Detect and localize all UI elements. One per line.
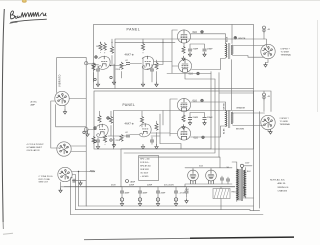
wire mid tail 2: [168, 148, 211, 150]
capacitor C4 25MF: [188, 49, 192, 51]
tie point 2: [110, 76, 112, 78]
circled-plus V6: [202, 136, 205, 139]
svg-text:BLUE: BLUE: [226, 36, 228, 42]
svg-text:& PHASE SHIFT: & PHASE SHIFT: [27, 146, 43, 149]
wire G2 lead: [113, 64, 115, 80]
ground G22: [63, 110, 66, 115]
wire R1b leads: [104, 42, 106, 53]
wire T3 top leads: [232, 162, 245, 170]
wire HV stub: [219, 157, 220, 168]
wire input bus vertical: [85, 58, 87, 206]
wire C22 leads: [227, 177, 229, 184]
wire G21 lead: [87, 130, 89, 132]
title Baldwin handwritten: [10, 11, 46, 19]
ground G16: [182, 125, 185, 130]
pentode V5: [177, 98, 190, 111]
svg-text:25MF: 25MF: [207, 49, 213, 51]
wire driver to output grids: [151, 99, 177, 136]
wire jack to tube: [88, 64, 99, 65]
svg-text:OIL 600V: OIL 600V: [140, 173, 149, 175]
svg-text:20MF: 20MF: [147, 185, 153, 187]
resistor R5: [141, 44, 144, 51]
wire R2 leads: [111, 39, 113, 66]
wire bottom loop 3: [71, 214, 264, 216]
scan artifact: bottom diagonal line: [84, 238, 190, 239]
svg-text:MFD AT 450: MFD AT 450: [140, 165, 150, 168]
capacitor C14: [203, 118, 207, 120]
wire C12 leads: [151, 137, 153, 144]
electrolytic C6: [262, 26, 266, 33]
wire C16 leads: [97, 138, 99, 145]
resistor R16 screen: [182, 115, 185, 122]
wire plate bus mid: [151, 111, 163, 144]
circled-plus V3: [197, 72, 200, 75]
ground G12: [141, 144, 144, 149]
wire V9 to V10: [51, 101, 58, 148]
rectifier top line: [185, 167, 232, 169]
ground G4: [155, 82, 158, 87]
wire R15 leads: [156, 121, 158, 144]
wire T2 secondary to socket: [233, 113, 265, 126]
svg-text:6L6: 6L6: [193, 30, 198, 34]
resistor R18 inline: [90, 171, 95, 172]
circled-plus V2: [201, 31, 204, 34]
svg-text:LAMP: LAMP: [130, 181, 136, 184]
wire T3 AC to bus: [237, 187, 254, 202]
tie point 3: [94, 140, 96, 142]
svg-text:2 SPKR ?: 2 SPKR ?: [280, 118, 290, 120]
ground G13: [155, 144, 158, 149]
ground G20: [264, 63, 267, 68]
wire mid tail 1: [160, 144, 181, 149]
bottom-left faint smudge: [3, 232, 13, 235]
wire choke leads: [220, 187, 222, 210]
transformer T2 secondary winding: [231, 112, 232, 124]
wire R5 leads: [142, 39, 144, 53]
wire screen taps: [184, 43, 205, 48]
wire R11 leads: [110, 111, 112, 136]
wire G3 lead: [142, 58, 144, 83]
wire C6 lead: [264, 33, 267, 47]
wire R6 leads: [156, 60, 158, 82]
ground G3: [141, 82, 144, 87]
svg-text:PANEL: PANEL: [123, 103, 136, 107]
svg-text:AMP: AMP: [31, 104, 36, 107]
svg-text:1M: 1M: [96, 46, 99, 48]
wire R17 leads: [104, 135, 106, 145]
resistor R1b: [103, 44, 106, 51]
paper top edge shading: [0, 0, 320, 1]
wire G22 lead: [64, 106, 66, 110]
triode V4a: [97, 124, 109, 137]
wire V11 w3: [71, 178, 73, 215]
pentode V3: [178, 59, 191, 72]
ground G17: [269, 130, 272, 135]
filter cap F5: [185, 187, 189, 204]
ground G21: [86, 132, 89, 137]
wire C21 leads: [221, 176, 223, 184]
wire V10 right 1: [71, 145, 86, 147]
wire V11 w1: [72, 172, 90, 207]
svg-text:20MF: 20MF: [161, 193, 167, 195]
svg-text:450V: 450V: [111, 185, 116, 187]
wire C15 leads: [263, 91, 265, 112]
wire B+ center tap upper: [231, 25, 233, 44]
circled-plus mid2: [107, 117, 110, 120]
wire bottom loop 2: [76, 210, 260, 211]
capacitor C3: [150, 69, 154, 71]
svg-text:TO GRID: TO GRID: [280, 121, 289, 123]
wire bus left end to ground: [61, 182, 65, 188]
wire screen taps mid: [184, 112, 205, 117]
ground G19: [79, 181, 82, 186]
svg-text:AND FIL: AND FIL: [278, 182, 287, 185]
pentode V2: [177, 30, 190, 43]
triode V1a: [99, 56, 111, 69]
fuse: [240, 164, 243, 167]
svg-text:CHASSIS: CHASSIS: [278, 190, 288, 193]
tube socket V10 phase shift osc: [57, 142, 71, 156]
svg-text:TO 6SN7: TO 6SN7: [281, 52, 290, 54]
wire G11 lead: [113, 138, 115, 143]
svg-text:(OIL) 600V: (OIL) 600V: [164, 185, 174, 187]
svg-text:MFD + 400: MFD + 400: [140, 159, 149, 161]
svg-text:WHITE: WHITE: [224, 102, 226, 109]
wire right bus 2: [259, 112, 261, 209]
socket SO2 speaker: [261, 115, 275, 129]
resistor R14: [140, 117, 143, 124]
ground G5: [188, 52, 191, 57]
ground G18: [59, 188, 62, 193]
capacitor C20 inline: [73, 179, 75, 183]
svg-text:220K: 220K: [116, 140, 121, 142]
scan artifact: left vertical line: [2, 9, 4, 222]
wire right routing: [219, 73, 254, 94]
filter cap F1: [120, 187, 130, 207]
svg-text:VIBRATO: VIBRATO: [57, 74, 61, 87]
svg-text:40MF: 40MF: [143, 193, 149, 195]
transformer T3 right winding: [244, 170, 246, 196]
wire V7 top: [192, 168, 194, 170]
capacitor C2 coupling: [126, 63, 130, 65]
svg-text:GEN OUT: GEN OUT: [39, 182, 49, 184]
ground G10: [96, 144, 99, 149]
wire V3 plate to transformer: [192, 59, 226, 70]
triode V1b: [142, 56, 154, 69]
transformer T2 core: [229, 110, 230, 128]
svg-text:4AX7 ⊕: 4AX7 ⊕: [125, 53, 135, 57]
node dot T3: [243, 187, 245, 189]
wire rect bottom line: [185, 184, 232, 187]
top panel box: [94, 25, 254, 89]
wire V6 plate to T2: [191, 126, 226, 137]
tube socket V11 tone gen input: [58, 167, 72, 181]
svg-text:25MF: 25MF: [193, 117, 199, 119]
underline tick: [10, 22, 18, 23]
svg-text:40MF: 40MF: [125, 193, 131, 195]
wire B+ drop 1: [121, 72, 211, 187]
tie point 1: [94, 78, 96, 80]
rectifier tube V8: [206, 170, 217, 184]
capacitor C12: [150, 140, 154, 142]
svg-text:INTO TONE: INTO TONE: [39, 179, 51, 181]
jack J1b feedthrough: [92, 63, 95, 66]
node dots rail: [100, 42, 101, 43]
wire B+ drop 2: [124, 79, 215, 153]
resistor R15: [155, 124, 158, 131]
ground G6: [203, 52, 206, 57]
ground G15: [203, 121, 206, 126]
svg-text:220K: 220K: [116, 69, 121, 71]
svg-text:40MF: 40MF: [129, 185, 135, 187]
capacitor C1: [96, 69, 100, 71]
capacitor C11 coupling: [126, 135, 130, 137]
svg-text:+ 470V: + 470V: [179, 193, 186, 195]
resistor R7 screen: [182, 47, 185, 54]
capacitor C21: [220, 178, 224, 180]
title underline: [10, 19, 47, 22]
resistor R4: [120, 63, 123, 70]
node dot w1: [78, 171, 79, 172]
wire secondary to socket: [233, 46, 265, 58]
transformer T1 secondary winding: [231, 45, 232, 55]
socket SO1 speaker: [261, 44, 275, 58]
svg-text:4AX7 ⊕: 4AX7 ⊕: [125, 122, 135, 126]
transformer T1 core: [229, 43, 230, 59]
ground G14: [188, 121, 191, 126]
rectifier tube V7: [188, 170, 199, 184]
wire C3 leads: [151, 65, 153, 83]
circled-plus mid: [94, 127, 97, 130]
tube socket V9 osc amp: [55, 91, 69, 105]
svg-text:115V: 115V: [245, 163, 250, 165]
ground G7: [182, 56, 185, 61]
input jack J1: [85, 62, 88, 65]
wire B+ center tap lower: [231, 60, 233, 111]
wire driver to grids: [154, 30, 179, 73]
circled-plus V5: [201, 99, 204, 102]
tie point 5: [83, 131, 85, 133]
wire V2 plate to transformer: [191, 34, 226, 44]
wire right bus 1: [253, 89, 255, 211]
svg-text:NOTE ALL B.S.: NOTE ALL B.S.: [270, 178, 286, 181]
triode V4b: [140, 124, 152, 137]
wire B+ drop 3: [139, 93, 219, 157]
svg-text:+ 40 MFD: + 40 MFD: [140, 176, 149, 178]
capacitor C22: [226, 179, 230, 181]
inner shield line: [114, 111, 254, 150]
pentode V6: [177, 127, 190, 140]
capacitor C13: [188, 118, 192, 120]
svg-text:25MF: 25MF: [207, 117, 213, 119]
wire C2 h: [110, 64, 142, 66]
svg-text:FOR 6L6 +: FOR 6L6 +: [140, 162, 150, 164]
inner shield line: [115, 39, 266, 89]
wire V11 w4: [72, 181, 86, 206]
resistor R12: [92, 137, 95, 144]
transformer T1 primary winding: [226, 44, 227, 58]
wire R10 leads: [99, 111, 101, 128]
svg-text:25MF: 25MF: [193, 49, 199, 51]
label white: [234, 36, 237, 39]
wire R4 leads: [121, 62, 123, 78]
wire V10 right 2: [71, 151, 86, 153]
note box: [139, 156, 159, 181]
svg-text:WIRING IS: WIRING IS: [278, 187, 289, 189]
ground G2: [112, 80, 115, 85]
resistor R13: [120, 135, 123, 142]
paper right edge faint line: [316, 20, 318, 112]
transformer T3 left winding: [237, 169, 239, 200]
svg-text:C TONE PLUG: C TONE PLUG: [39, 176, 53, 178]
wire C11 h: [108, 135, 139, 137]
input jack J2: [84, 128, 88, 132]
wire B+ rail: [115, 41, 175, 43]
svg-text:ORANGE: ORANGE: [236, 107, 246, 110]
wire V9 to jack2: [56, 105, 86, 129]
wire SO1 stub: [266, 59, 269, 63]
filter cap F4: [174, 187, 185, 207]
wire bottom loop 1: [79, 205, 254, 207]
svg-text:15C: 15C: [147, 69, 151, 71]
small extension box: [254, 91, 272, 112]
tie point 4: [110, 139, 112, 141]
resistor R17: [103, 136, 106, 143]
capacitor C16: [96, 140, 100, 142]
svg-text:SUB 5881: SUB 5881: [140, 169, 149, 171]
resistor R10: [98, 116, 101, 123]
middle panel box: [94, 91, 254, 149]
svg-text:BROWN: BROWN: [236, 129, 244, 131]
resistor R11: [109, 117, 112, 124]
svg-text:PANEL: PANEL: [127, 28, 141, 32]
wire V3 tail: [167, 73, 215, 79]
wire V5 plate to T2: [191, 102, 226, 111]
transformer T3 body shade: [236, 169, 241, 201]
wire C1 leads: [97, 66, 99, 82]
choke hatched: [213, 189, 237, 199]
wire input riser VIBRATO: [57, 58, 86, 93]
transformer T3 core: [241, 168, 242, 202]
wire jack2 to box: [88, 129, 96, 131]
svg-text:A OSC: A OSC: [31, 101, 38, 104]
resistor R1: [99, 44, 102, 51]
ground G1: [96, 82, 99, 87]
resistor R3: [92, 64, 95, 71]
wire R3 lead: [93, 72, 95, 82]
wire V9 right: [69, 98, 86, 100]
svg-text:6 SPKR ?: 6 SPKR ?: [281, 49, 291, 51]
filter cap F3: [156, 187, 166, 207]
svg-text:WHITE: WHITE: [238, 38, 246, 40]
node dot A: [110, 65, 111, 66]
resistor R6: [155, 63, 158, 70]
wire fuse right: [244, 165, 252, 167]
capacitor C5 25MF: [203, 49, 207, 51]
filter cap F2: [138, 187, 148, 207]
wire R1 leads: [100, 42, 102, 52]
svg-text:OSCILLATOR: OSCILLATOR: [27, 149, 40, 152]
wire plate bus: [154, 39, 164, 65]
transformer T2 primary winding: [226, 111, 227, 127]
ground G11: [112, 143, 115, 148]
svg-text:TERMINAL: TERMINAL: [280, 123, 291, 126]
svg-text:4 CYCLE PICKUP: 4 CYCLE PICKUP: [27, 144, 45, 146]
circled-plus mark: [95, 56, 98, 59]
svg-text:BL BK: BL BK: [224, 128, 226, 134]
pilot lamp: [126, 180, 129, 183]
yellow tape mark: [22, 0, 27, 3]
electrolytic C15: [262, 93, 266, 100]
svg-text:TERMINAL: TERMINAL: [281, 54, 292, 57]
main B+ bus: [64, 186, 235, 188]
wire R14 leads: [141, 111, 143, 127]
wire SO2 ground lead: [268, 130, 271, 132]
resistor R2: [110, 47, 113, 54]
wire V11 w2: [72, 175, 75, 210]
wire V8 top: [210, 168, 212, 170]
